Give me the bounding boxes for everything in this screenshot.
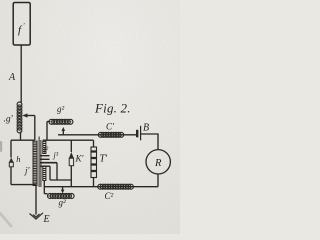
coil g2 (upper horizontal coil) xyxy=(49,119,73,124)
svg-text:g²: g² xyxy=(59,198,67,208)
coil C2 xyxy=(98,184,134,189)
wire V12 step down xyxy=(70,180,72,187)
svg-text:g²: g² xyxy=(57,104,65,114)
secondary riser V6 xyxy=(46,122,48,141)
battery B xyxy=(136,130,138,138)
wire H5 lower shelf xyxy=(50,179,71,181)
wire H2 bottom of shunt loop xyxy=(11,184,36,186)
svg-text:j³: j³ xyxy=(53,151,59,160)
transformer secondary winding j2 lower section xyxy=(43,166,46,181)
coil C' xyxy=(98,132,123,137)
svg-text:A: A xyxy=(8,72,16,83)
svg-text:K′: K′ xyxy=(75,154,85,164)
wire H6 bottom bus xyxy=(44,186,158,188)
wire capacitor drop V10 xyxy=(49,166,51,180)
ground lead wire xyxy=(35,186,37,215)
arrowheads and solids xyxy=(22,113,65,193)
wire through coil g2b xyxy=(48,195,72,197)
tap arrow on coil g' xyxy=(24,115,35,117)
svg-text:Fig. 2.: Fig. 2. xyxy=(94,101,131,116)
receiver R circle xyxy=(146,150,170,174)
resistor T' xyxy=(91,147,97,178)
wire lamp h to bottom xyxy=(10,167,12,185)
lamp h xyxy=(9,158,14,167)
arrowhead down g2b xyxy=(61,190,65,194)
wire tap to primary xyxy=(34,116,36,141)
wire through coil g2 xyxy=(50,121,72,123)
down arrow into bottom coil xyxy=(62,187,64,191)
wire W1 to battery xyxy=(58,134,137,136)
svg-text:B: B xyxy=(143,123,149,134)
ground symbol E strokes xyxy=(30,213,44,219)
coil g2b (bottom horizontal coil) xyxy=(48,194,75,199)
wire stub to coil g2 xyxy=(47,121,50,123)
wire left branch down to lamp h xyxy=(10,140,12,157)
tap arrow up into g2 xyxy=(62,130,64,135)
arrowhead of g' tap xyxy=(22,113,27,117)
wire A (antenna lead) xyxy=(20,45,22,103)
background paper xyxy=(0,0,180,234)
wire K' branch lower lead xyxy=(70,166,72,180)
transformer secondary winding j2 upper section xyxy=(43,141,46,155)
lamp K' xyxy=(69,152,74,166)
wire K' branch upper lead xyxy=(70,140,72,152)
coil g' (vertical tuning coil) xyxy=(17,102,22,133)
wire j2 bottom down xyxy=(43,181,45,194)
wire battery to R xyxy=(141,134,158,150)
wire T' bottom lead xyxy=(93,178,95,187)
wire g' bottom stub xyxy=(20,132,22,141)
capacitor j3 xyxy=(40,155,50,157)
transformer primary winding j' xyxy=(33,141,37,187)
antenna plate f' xyxy=(13,3,30,46)
svg-text:C′: C′ xyxy=(106,122,115,132)
wire R bottom xyxy=(157,174,159,187)
svg-text:C²: C² xyxy=(105,191,114,201)
svg-text:R: R xyxy=(154,158,162,169)
svg-text:h: h xyxy=(16,154,20,164)
wire H1 top of shunt loop xyxy=(11,139,35,141)
svg-text:T′: T′ xyxy=(100,154,109,165)
wire capacitor drop V11 xyxy=(56,163,58,180)
svg-text:j²: j² xyxy=(43,145,49,154)
transformer core xyxy=(39,137,41,188)
scan smudge bottom left xyxy=(0,212,11,226)
wire H4 top of detector loop xyxy=(43,139,94,141)
svg-text:E: E xyxy=(43,214,50,225)
svg-text:.g′: .g′ xyxy=(4,115,14,125)
scan smudge left edge xyxy=(0,141,2,152)
wire T' top lead xyxy=(93,140,95,147)
arrowhead up g2 xyxy=(62,127,66,131)
wire stub to bottom coil xyxy=(44,193,47,195)
